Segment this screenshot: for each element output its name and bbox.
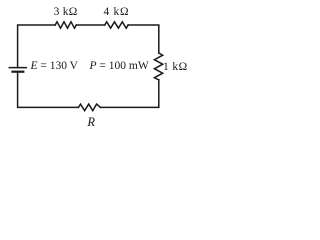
label 4 kOhm	[104, 7, 130, 19]
label 1 kOhm	[163, 62, 188, 74]
label 3 kOhm	[54, 7, 78, 19]
resistor R2 4 kOhm	[105, 22, 129, 28]
wire bottom-left segment	[18, 72, 79, 108]
label P = 100 mW	[90, 61, 149, 73]
wire right-bottom segment	[101, 80, 159, 108]
label E = 130 V	[31, 61, 79, 73]
label R	[87, 116, 95, 129]
battery E positive plate (long)	[9, 67, 26, 69]
resistor R3 1 kOhm (vertical)	[154, 53, 162, 80]
resistor R1 3 kOhm	[55, 22, 76, 28]
wire top-left segment	[18, 25, 56, 67]
wire top-right segment	[128, 25, 159, 53]
battery E negative plate (short thick)	[13, 71, 24, 73]
resistor R (bottom)	[78, 104, 100, 111]
wire top-middle segment	[76, 24, 105, 26]
